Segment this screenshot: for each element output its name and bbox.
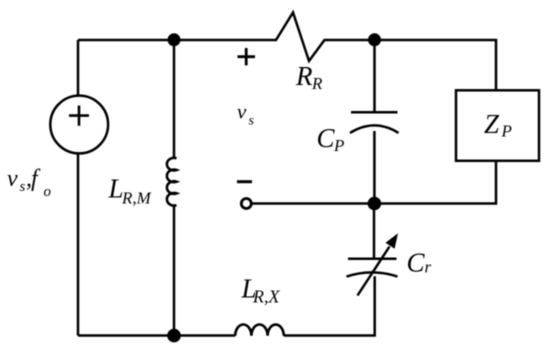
- svg-text:v: v: [237, 100, 247, 124]
- svg-text:s: s: [249, 114, 255, 129]
- svg-text:C: C: [407, 248, 426, 278]
- svg-text:r: r: [425, 258, 432, 277]
- svg-text:v: v: [7, 166, 18, 192]
- svg-text:R,X: R,X: [252, 287, 280, 307]
- svg-text:f: f: [31, 166, 41, 192]
- svg-text:C: C: [317, 123, 336, 153]
- svg-text:R: R: [295, 61, 313, 91]
- svg-text:P: P: [333, 136, 344, 155]
- svg-text:Z: Z: [484, 109, 500, 139]
- svg-text:s: s: [20, 179, 26, 195]
- svg-text:P: P: [501, 122, 512, 141]
- svg-text:R,M: R,M: [121, 189, 152, 208]
- svg-text:R: R: [311, 74, 323, 93]
- svg-text:o: o: [44, 184, 52, 200]
